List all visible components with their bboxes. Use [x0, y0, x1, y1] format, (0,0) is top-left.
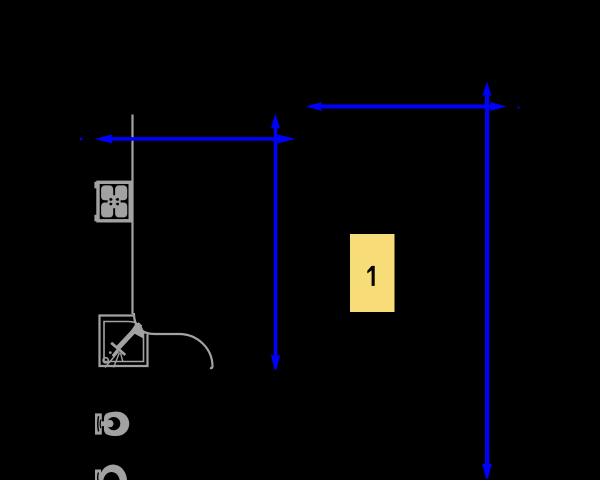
dimension line H2 (right horizontal)	[306, 102, 520, 111]
glass block centre cross	[108, 195, 121, 208]
shower spray dot	[109, 351, 112, 354]
shower tray inner outline	[104, 322, 144, 362]
toilet tank	[95, 413, 102, 434]
room label 1 box	[350, 234, 395, 312]
shower door diagonal band	[118, 324, 141, 349]
glass block (decorative block) frame	[94, 182, 130, 222]
dimension line V1 (left vertical)	[271, 114, 280, 370]
shower mixer cross	[111, 343, 125, 357]
glass block centre notches	[109, 198, 119, 205]
dimension line H1 (left horizontal)	[80, 134, 296, 143]
glass block petals	[101, 185, 127, 217]
dimension line V2 (right vertical)	[482, 82, 491, 479]
toilet bowl	[100, 412, 129, 436]
shower corner wedge	[131, 325, 145, 339]
room label 1 text	[367, 266, 374, 286]
shower tray outer square	[100, 316, 148, 367]
shower drain circle	[103, 358, 108, 363]
shower spray lines	[105, 352, 123, 368]
bidet (bottom, clipped)	[95, 465, 127, 480]
wall: vertical partition line	[131, 115, 133, 315]
wall: curved corner into horizontal stub and door swing arc	[134, 313, 213, 368]
